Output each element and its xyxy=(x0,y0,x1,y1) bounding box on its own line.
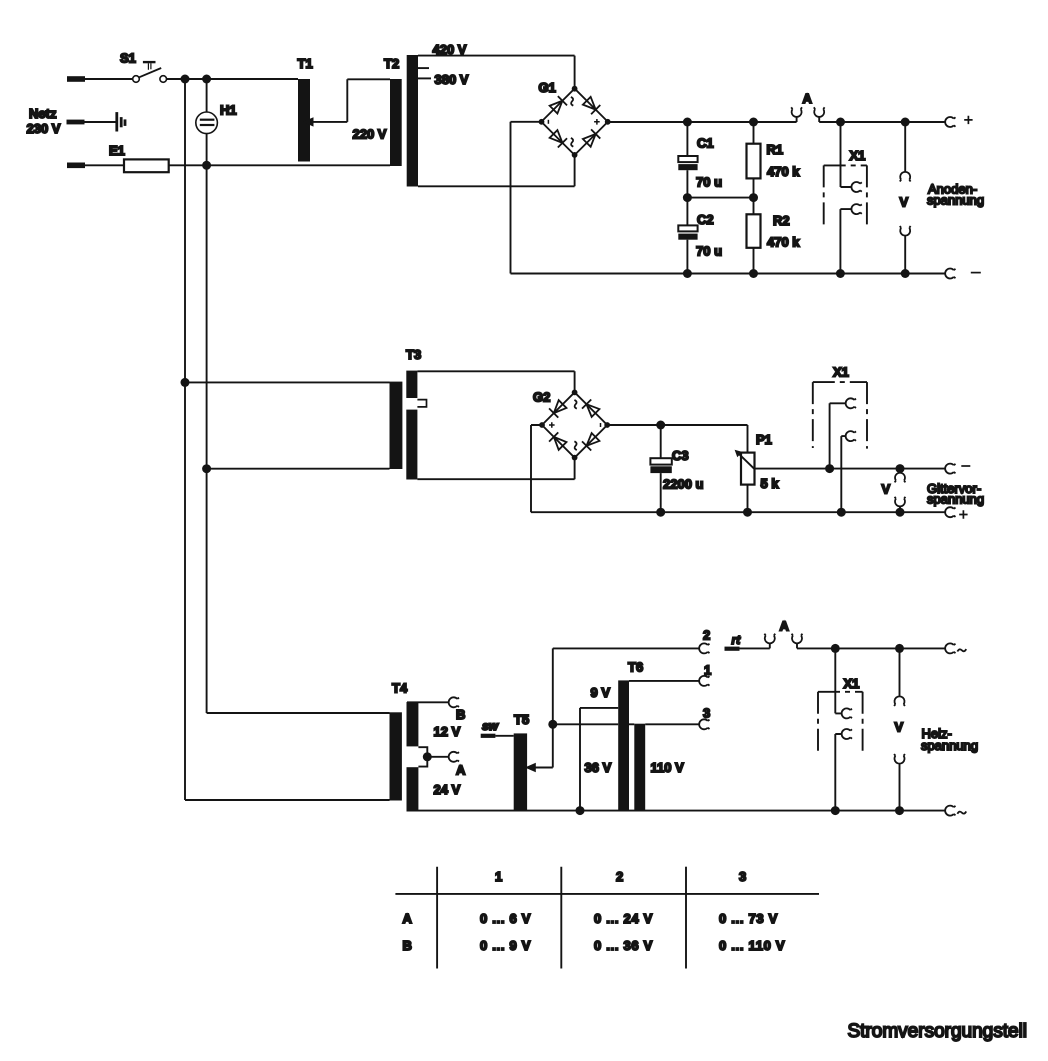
jack 3 xyxy=(699,719,709,729)
svg-text:V: V xyxy=(882,482,891,497)
svg-text:B: B xyxy=(456,707,465,722)
wire left bus to T4 bottom xyxy=(185,382,390,800)
transformer T4 secondary xyxy=(407,702,419,811)
node top rail junction right xyxy=(202,75,211,84)
wire 9V tap xyxy=(580,708,618,811)
node V top (grid) xyxy=(896,464,905,473)
svg-text:C1: C1 xyxy=(697,136,714,151)
node C3 bottom xyxy=(656,508,665,517)
node X1 branch xyxy=(836,118,845,127)
svg-text:T4: T4 xyxy=(392,681,408,696)
svg-text:110 V: 110 V xyxy=(651,760,685,775)
wire C1-C2 midpoint xyxy=(687,197,753,199)
node T5 wiper / T6 feed xyxy=(548,720,557,729)
wire P1 wiper output xyxy=(755,468,946,470)
svg-text:G1: G1 xyxy=(539,80,556,95)
svg-text:S1: S1 xyxy=(120,51,136,66)
diode G1 bottom-left xyxy=(550,130,567,147)
fuse E1 xyxy=(124,159,169,172)
wire plus rail xyxy=(531,511,945,513)
svg-text:0 ... 36 V: 0 ... 36 V xyxy=(594,938,653,953)
node V branch xyxy=(901,118,910,127)
ammeter jacks A top xyxy=(791,107,824,122)
connector X1 (grid) xyxy=(813,382,867,512)
wire feed to T6 xyxy=(553,723,618,725)
svg-text:T6: T6 xyxy=(628,660,643,675)
node V bottom (heater) xyxy=(895,806,904,815)
output jack minus xyxy=(945,269,955,279)
svg-text:2: 2 xyxy=(616,869,623,884)
node R1 top xyxy=(749,118,758,127)
svg-text:1: 1 xyxy=(495,869,502,884)
svg-text:R1: R1 xyxy=(767,142,784,157)
voltmeter V (anode) xyxy=(900,122,911,274)
potentiometer P1 xyxy=(735,450,755,512)
node midpoint left xyxy=(683,193,692,202)
output jack minus (grid) xyxy=(945,464,955,474)
jack 1 xyxy=(699,676,709,686)
wire second vertical bus xyxy=(206,165,208,468)
svg-text:70 u: 70 u xyxy=(696,175,722,190)
svg-text:3: 3 xyxy=(739,869,746,884)
svg-text:Stromversorgungsteil: Stromversorgungsteil xyxy=(848,1021,1028,1042)
node C3 top xyxy=(656,421,665,430)
svg-text:380 V: 380 V xyxy=(435,72,469,87)
node X1 bottom xyxy=(836,269,845,278)
wire xyxy=(85,121,116,123)
svg-text:P1: P1 xyxy=(756,432,772,447)
svg-text:H1: H1 xyxy=(220,102,237,117)
wire T6 right winding to jack 3 xyxy=(629,723,699,725)
wire T6 top to jack 1 xyxy=(629,680,699,682)
wire rail after break xyxy=(819,121,945,123)
jack A xyxy=(449,752,459,762)
wire tap to jack A xyxy=(427,756,449,758)
output jack ac bottom xyxy=(945,806,955,816)
jack 2 xyxy=(699,643,709,653)
svg-text:5 k: 5 k xyxy=(761,476,780,491)
minus mark xyxy=(961,465,970,467)
G2 ac marks xyxy=(574,400,576,409)
transformer T2 primary xyxy=(390,79,402,166)
node X1 wire on plus line xyxy=(837,508,846,517)
wire minus rail xyxy=(511,273,946,275)
svg-text:0 ... 6 V: 0 ... 6 V xyxy=(480,911,531,926)
wire top to jack B xyxy=(407,701,449,703)
wire heater bottom rail xyxy=(407,810,946,812)
svg-text:B: B xyxy=(403,938,412,953)
diode G1 top-left xyxy=(550,97,567,114)
node R2 bottom xyxy=(749,269,758,278)
svg-text:X1: X1 xyxy=(833,365,849,380)
node C2 bottom xyxy=(683,269,692,278)
transformer T6 left winding xyxy=(618,680,629,810)
svg-text:C2: C2 xyxy=(697,212,714,227)
wire left bus to T4 top xyxy=(207,469,390,713)
diode G2 top-right xyxy=(583,400,600,417)
wire sw to T5 xyxy=(495,735,513,737)
plus mark xyxy=(964,116,972,124)
output jack plus xyxy=(945,117,955,127)
ammeter jacks A (heater) xyxy=(764,634,802,649)
node 9V tap ground xyxy=(576,806,585,815)
wire T3 secondary bottom to G2 xyxy=(417,460,574,479)
transformer T4 primary xyxy=(390,712,402,800)
node T3 primary top branch xyxy=(181,378,190,387)
diode G2 top-left xyxy=(550,400,567,417)
node T4 tap xyxy=(423,752,432,761)
node G2 vertices xyxy=(539,390,610,461)
svg-text:T2: T2 xyxy=(384,56,399,71)
svg-text:A: A xyxy=(456,762,466,777)
switch S1 xyxy=(133,61,167,82)
jack B xyxy=(449,697,459,707)
G1 plus mark xyxy=(594,119,600,125)
wire wiper to jack 2 xyxy=(553,647,700,649)
wire T1 wiper arm xyxy=(312,79,391,122)
svg-text:3: 3 xyxy=(703,706,710,721)
transformer T5 xyxy=(514,733,527,810)
node C1 top xyxy=(683,118,692,127)
wire xyxy=(185,381,390,383)
G2 plus mark xyxy=(549,422,555,428)
node P1 bottom xyxy=(743,508,752,517)
transformer T1 xyxy=(298,79,310,162)
terminal N xyxy=(67,163,85,169)
wire xyxy=(169,164,390,166)
svg-text:9 V: 9 V xyxy=(591,685,611,700)
svg-text:X1: X1 xyxy=(850,148,866,163)
transformer T6 right winding xyxy=(634,724,645,811)
output jack plus (grid) xyxy=(945,507,955,517)
terminal L (mains phase) xyxy=(67,76,85,82)
node X1 wire on minus line xyxy=(825,464,834,473)
svg-text:E1: E1 xyxy=(109,143,125,158)
G1 minus mark xyxy=(547,120,549,124)
transformer T2 secondary xyxy=(407,55,418,187)
node G1 vertices xyxy=(539,86,611,158)
wire xyxy=(85,78,133,80)
svg-text:G2: G2 xyxy=(533,390,550,405)
capacitor C3 xyxy=(650,425,671,512)
node V bottom xyxy=(901,269,910,278)
node X1 bottom (heater) xyxy=(831,806,840,815)
svg-text:rt: rt xyxy=(732,633,742,647)
svg-text:470 k: 470 k xyxy=(767,164,800,179)
svg-text:T5: T5 xyxy=(514,712,529,727)
wire T2 secondary bottom xyxy=(418,155,575,186)
wire heater top rail xyxy=(797,647,945,649)
tap tick 380V xyxy=(418,77,431,79)
diode G2 bottom-right xyxy=(583,433,600,450)
svg-text:420 V: 420 V xyxy=(433,42,467,57)
connector X1 (anode) xyxy=(824,122,867,274)
capacitor C1 xyxy=(678,122,697,198)
T5 wiper arrow xyxy=(534,648,553,767)
transformer T3 primary xyxy=(390,382,403,469)
wire T3 secondary top to G2 xyxy=(417,371,574,392)
svg-text:36 V: 36 V xyxy=(585,760,612,775)
resistor R2 xyxy=(747,214,761,273)
tap tick xyxy=(418,67,429,69)
svg-text:0 ... 9 V: 0 ... 9 V xyxy=(480,938,531,953)
resistor R1 xyxy=(747,122,761,214)
svg-text:220 V: 220 V xyxy=(353,127,387,142)
wire xyxy=(207,468,390,470)
node X1 branch (heater) xyxy=(831,644,840,653)
svg-text:2: 2 xyxy=(703,628,710,643)
svg-text:12 V: 12 V xyxy=(434,724,461,739)
G2 minus mark xyxy=(600,423,602,427)
svg-text:spannung: spannung xyxy=(927,492,984,507)
svg-text:X1: X1 xyxy=(844,676,860,691)
svg-text:A: A xyxy=(803,91,813,106)
capacitor C2 xyxy=(678,198,697,274)
G1 ac marks xyxy=(571,97,573,106)
voltmeter V (heater) xyxy=(894,648,905,810)
svg-text:T1: T1 xyxy=(298,56,313,71)
wire xyxy=(85,164,124,166)
svg-text:spannung: spannung xyxy=(927,193,984,208)
svg-text:70 u: 70 u xyxy=(696,244,722,259)
table xyxy=(395,867,819,969)
node T3 primary bottom branch xyxy=(202,464,211,473)
rectifier G2 xyxy=(532,383,616,467)
node E1 line / H1 junction xyxy=(202,161,211,170)
T3 tap stub xyxy=(417,400,426,407)
wire rt to ammeter xyxy=(740,647,770,649)
voltmeter V (grid) xyxy=(895,473,906,512)
plus mark xyxy=(959,510,967,518)
svg-text:230 V: 230 V xyxy=(27,121,61,136)
wire plus rail xyxy=(608,121,797,123)
T4 tap bracket xyxy=(418,747,427,766)
svg-text:A: A xyxy=(780,619,790,634)
output jack ac top xyxy=(945,643,955,653)
svg-text:2200 u: 2200 u xyxy=(663,477,704,492)
svg-text:spannung: spannung xyxy=(921,738,978,753)
node midpoint right xyxy=(749,193,758,202)
svg-text:T3: T3 xyxy=(406,347,421,362)
node V bottom (grid) xyxy=(896,508,905,517)
diode G2 bottom-left xyxy=(550,433,567,450)
rectifier G1 xyxy=(532,79,617,164)
transformer T3 secondary xyxy=(406,371,417,480)
svg-text:A: A xyxy=(403,911,413,926)
wire left vertical bus xyxy=(184,79,186,382)
svg-text:sw: sw xyxy=(482,719,499,733)
svg-text:Netz: Netz xyxy=(29,106,57,121)
lamp H1 xyxy=(196,79,218,165)
connector X1 (heater) xyxy=(818,648,863,810)
terminal PE (earth) xyxy=(67,120,85,125)
svg-text:C3: C3 xyxy=(672,448,689,463)
wire G1 minus to lower rail xyxy=(511,122,542,274)
svg-text:0 ... 24 V: 0 ... 24 V xyxy=(594,911,653,926)
diode G1 bottom-right xyxy=(583,130,600,147)
wire 420V tap xyxy=(418,56,575,89)
svg-text:24 V: 24 V xyxy=(434,782,461,797)
svg-text:V: V xyxy=(895,720,904,735)
node top rail junction left xyxy=(181,75,190,84)
wire xyxy=(167,78,299,80)
minus mark xyxy=(971,272,981,274)
diode G1 top-right xyxy=(583,97,600,114)
svg-text:R2: R2 xyxy=(773,213,790,228)
svg-text:0 ... 110 V: 0 ... 110 V xyxy=(719,938,785,953)
svg-text:V: V xyxy=(900,195,909,210)
svg-text:0 ... 73 V: 0 ... 73 V xyxy=(719,911,778,926)
node V branch (heater) xyxy=(895,644,904,653)
svg-text:470 k: 470 k xyxy=(767,234,800,249)
wire G2 plus to lower rail xyxy=(531,425,542,512)
svg-text:1: 1 xyxy=(704,663,711,678)
ground (earth symbol) xyxy=(115,112,126,131)
wire minus rail xyxy=(607,425,747,453)
